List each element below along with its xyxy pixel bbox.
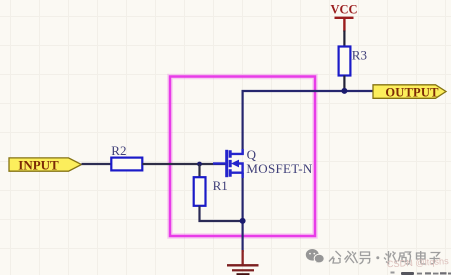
svg-text:R3: R3 bbox=[352, 47, 367, 62]
transistor Q (MOSFET-N) bbox=[213, 149, 243, 178]
wire R2 to gate bbox=[142, 163, 225, 165]
wire junction to R1 bbox=[198, 164, 200, 178]
watermark bottom edge remnant bbox=[391, 272, 451, 275]
wire R3 to output node bbox=[343, 76, 345, 92]
wire INPUT to R2 bbox=[82, 163, 112, 165]
resistor R2 bbox=[111, 158, 142, 171]
watermark wechat icon bbox=[306, 249, 324, 263]
wire drain to output node (top run) bbox=[243, 91, 345, 155]
svg-text:MOSFET-N: MOSFET-N bbox=[246, 161, 313, 176]
resistor R1 bbox=[194, 177, 206, 206]
svg-text:OUTPUT: OUTPUT bbox=[385, 85, 439, 99]
svg-text:VCC: VCC bbox=[330, 3, 357, 17]
node source junction bbox=[240, 218, 246, 224]
svg-text:R1: R1 bbox=[213, 178, 228, 193]
watermark text (public account) bbox=[329, 251, 440, 264]
wire source to ground node bbox=[242, 173, 244, 252]
wire output node to OUTPUT port bbox=[344, 90, 373, 92]
port INPUT bbox=[9, 157, 82, 172]
annotation box (magenta highlight rectangle) bbox=[170, 77, 315, 237]
svg-text:R2: R2 bbox=[111, 143, 126, 158]
resistor R3 bbox=[339, 47, 351, 76]
wire R1 to source node bbox=[200, 206, 243, 221]
ground bbox=[227, 250, 259, 275]
node output junction bbox=[341, 88, 347, 94]
svg-text:INPUT: INPUT bbox=[18, 157, 59, 172]
svg-text:Q: Q bbox=[247, 147, 257, 162]
node gate/R1 junction bbox=[197, 162, 202, 167]
port OUTPUT bbox=[373, 85, 446, 100]
power port VCC bbox=[330, 3, 357, 32]
wire VCC to R3 bbox=[343, 31, 345, 49]
